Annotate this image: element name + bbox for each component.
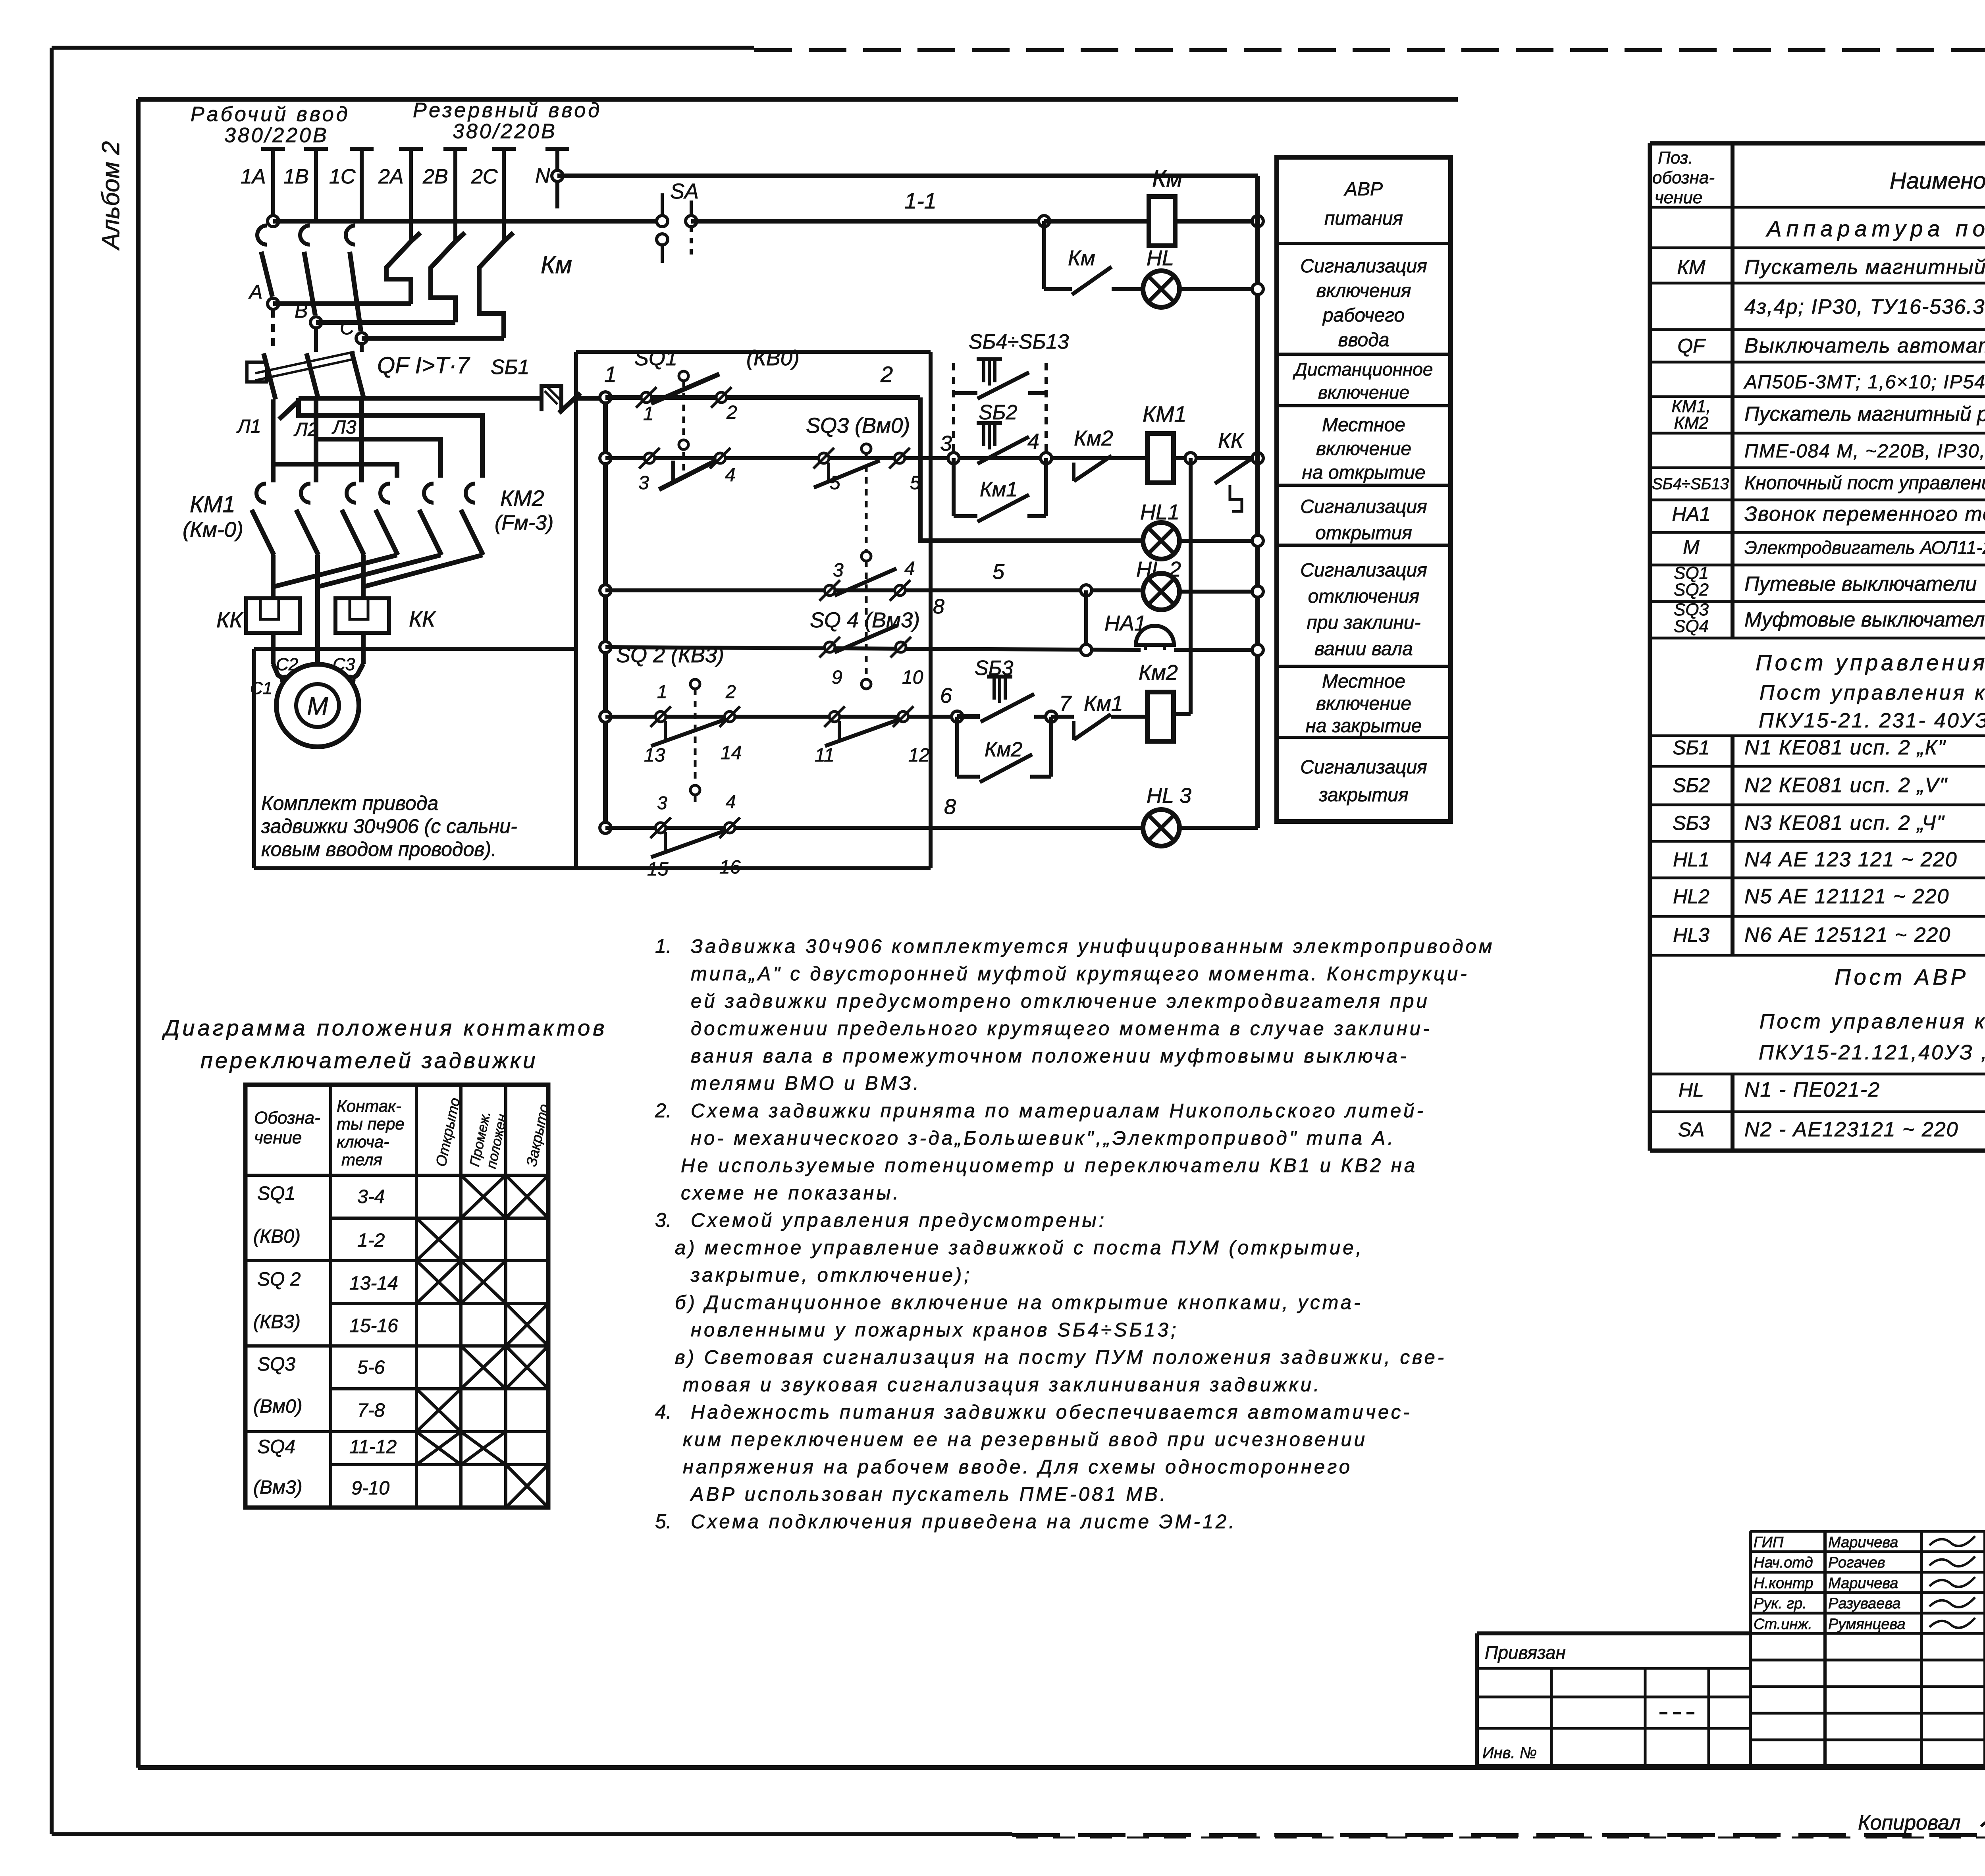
svg-text:Рабочий ввод: Рабочий ввод (191, 103, 350, 126)
svg-text:N2 КЕ081 исп. 2 „V": N2 КЕ081 исп. 2 „V" (1744, 774, 1948, 797)
svg-text:открытия: открытия (1315, 523, 1412, 544)
svg-text:6: 6 (940, 684, 952, 708)
svg-text:4: 4 (725, 465, 736, 486)
svg-text:N4 АЕ 123 121 ~ 220: N4 АЕ 123 121 ~ 220 (1744, 848, 1958, 871)
svg-text:Км1: Км1 (1084, 692, 1123, 715)
svg-text:КМ2: КМ2 (1674, 413, 1708, 433)
pole verticals to QF (271, 310, 275, 352)
svg-text:16: 16 (719, 857, 741, 878)
QF blade (352, 353, 364, 399)
svg-text:QF I>Т·7: QF I>Т·7 (377, 353, 470, 378)
svg-text:Рук. гр.: Рук. гр. (1754, 1595, 1807, 1612)
feeder 2А terminal (399, 147, 423, 151)
X mark row5 (506, 1346, 548, 1389)
contactor KM main contact pole 2 (455, 233, 465, 241)
svg-text:С: С (340, 316, 355, 339)
svg-text:Сигнализация: Сигнализация (1300, 256, 1427, 277)
SQ3-SQ4 linkage dashed (865, 453, 868, 691)
svg-text:Схемой управления предусмотрен: Схемой управления предусмотрены: (691, 1210, 1106, 1231)
svg-text:2: 2 (880, 362, 893, 387)
phase collector lines A B C (273, 301, 411, 306)
svg-text:чение: чение (1655, 188, 1702, 207)
svg-text:SБ4÷SБ13: SБ4÷SБ13 (1652, 475, 1729, 493)
svg-text:Местное: Местное (1322, 671, 1405, 692)
svg-text:8: 8 (933, 595, 944, 618)
SQ2 13-14 blade (651, 719, 727, 746)
svg-text:Альбом 2: Альбом 2 (97, 141, 125, 251)
svg-text:Муфтовые выключатели: Муфтовые выключатели (1744, 608, 1985, 631)
svg-text:ты пере: ты пере (337, 1114, 405, 1133)
control feed wire from QF to SB1 (299, 396, 540, 401)
svg-text:чение: чение (254, 1128, 302, 1147)
svg-text:SQ2: SQ2 (1674, 580, 1709, 600)
svg-text:Км1: Км1 (980, 478, 1018, 501)
svg-text:SA: SA (670, 179, 699, 203)
svg-text:3: 3 (638, 472, 649, 494)
svg-text:Км: Км (1152, 165, 1183, 192)
switch SQ2 contact 15-16 (650, 817, 671, 838)
wire coil KM2 return riser (1189, 458, 1193, 714)
svg-text:HL1: HL1 (1673, 848, 1709, 871)
svg-text:9: 9 (832, 667, 842, 688)
QF output verticals (271, 399, 276, 482)
svg-text:SБ1: SБ1 (491, 356, 529, 379)
SQ4 3-4 blade (834, 569, 896, 596)
svg-text:N: N (535, 164, 550, 187)
svg-text:1: 1 (604, 362, 617, 387)
svg-text:13: 13 (644, 745, 665, 766)
svg-text:НА1: НА1 (1672, 503, 1710, 525)
svg-text:Привязан: Привязан (1485, 1642, 1566, 1663)
svg-text:3-4: 3-4 (357, 1186, 385, 1207)
svg-text:Сигнализация: Сигнализация (1300, 496, 1427, 517)
svg-text:КМ1: КМ1 (1143, 401, 1187, 426)
svg-text:отключения: отключения (1308, 586, 1420, 607)
X mark row8 (506, 1465, 548, 1508)
switch SA (changeover) (661, 193, 664, 216)
svg-text:Разуваева: Разуваева (1828, 1595, 1900, 1612)
svg-text:Задвижка 30ч906 комплектуется: Задвижка 30ч906 комплектуется унифициров… (691, 936, 1494, 957)
feeder 1А terminal (261, 147, 285, 151)
SQ4 9-10 blade (834, 625, 897, 652)
svg-text:Пускатель магнитный реверсивны: Пускатель магнитный реверсивный (1744, 403, 1985, 426)
svg-text:Схема задвижки принята по мате: Схема задвижки принята по материалам Ник… (691, 1100, 1426, 1122)
X mark row1 (461, 1175, 506, 1218)
svg-text:SQ3 (Вм0): SQ3 (Вм0) (806, 414, 910, 438)
svg-text:SБ2: SБ2 (1673, 774, 1710, 796)
KK thermal hook (1230, 485, 1242, 511)
svg-text:Л1: Л1 (236, 416, 261, 437)
svg-text:Пост управления кнопочный: Пост управления кнопочный (1760, 1010, 1985, 1033)
svg-text:б) Дистанционное включение на: б) Дистанционное включение на открытие к… (675, 1292, 1363, 1313)
svg-text:4з,4р; IР30, ТУ16-536.381-8: 4з,4р; IР30, ТУ16-536.381-83 (1744, 295, 1985, 318)
svg-text:а) местное управление задвижко: а) местное управление задвижкой с поста … (675, 1237, 1364, 1259)
svg-text:SА: SА (1678, 1118, 1705, 1141)
SQ3 blade (814, 461, 880, 488)
svg-text:380/220В: 380/220В (453, 120, 557, 143)
svg-text:Местное: Местное (1322, 415, 1405, 436)
wire rung 1 (605, 395, 920, 400)
wire: N bus to control rail (557, 174, 1258, 178)
svg-text:2.: 2. (655, 1099, 672, 1122)
svg-text:2В: 2В (422, 165, 448, 188)
X mark row7 (461, 1432, 506, 1465)
KM1 seal blade (977, 495, 1029, 522)
svg-text:1-1: 1-1 (904, 188, 937, 213)
svg-text:М: М (307, 692, 328, 720)
svg-text:А: А (248, 281, 262, 303)
svg-text:SQ4: SQ4 (257, 1436, 295, 1458)
control feed tap diagonal (279, 401, 299, 419)
svg-text:Поз.: Поз. (1658, 148, 1693, 168)
svg-text:4.: 4. (655, 1401, 672, 1423)
svg-text:(Вм3): (Вм3) (253, 1477, 303, 1498)
svg-text:Инв. №: Инв. № (1482, 1744, 1537, 1762)
switch SQ1 contact 3-4 (639, 448, 660, 469)
crossover wire to KM2 pole1 (273, 464, 397, 478)
svg-text:4: 4 (726, 791, 736, 812)
svg-text:SQ3: SQ3 (257, 1354, 295, 1375)
switch SQ1 contact 1-2 (636, 387, 657, 408)
switch SQ4 contact 3-4 (819, 580, 840, 601)
feeder N terminal (545, 147, 569, 151)
node rung6/left rail (600, 711, 611, 722)
X mark row2 (416, 1218, 461, 1261)
svg-text:HL: HL (1147, 246, 1174, 270)
svg-text:КК: КК (216, 607, 244, 632)
svg-text:(КВ3): (КВ3) (253, 1311, 301, 1332)
svg-text:на открытие: на открытие (1302, 462, 1425, 483)
svg-text:(Км-0): (Км-0) (183, 518, 243, 542)
svg-text:(КВ0): (КВ0) (746, 346, 800, 370)
svg-text:вания вала в промежуточном пол: вания вала в промежуточном положении муф… (691, 1045, 1409, 1067)
svg-text:Сигнализация: Сигнализация (1300, 560, 1427, 581)
svg-text:КК: КК (409, 606, 436, 631)
node branch to KM aux (1039, 216, 1050, 227)
KM2 seal blade (980, 754, 1032, 782)
svg-text:В: В (295, 300, 308, 322)
node rung5/left rail (600, 585, 611, 596)
svg-text:Схема подключения приведена на: Схема подключения приведена на листе ЭМ-… (691, 1511, 1237, 1533)
svg-text:2А: 2А (378, 165, 404, 188)
svg-text:АВР использован пускатель ПМЕ-: АВР использован пускатель ПМЕ-081 МВ. (690, 1484, 1168, 1505)
svg-text:Пускатель магнитный ПМЕ-081МВ,: Пускатель магнитный ПМЕ-081МВ, ~220В (1744, 256, 1985, 279)
svg-text:включение: включение (1316, 438, 1411, 459)
svg-text:3: 3 (657, 792, 667, 813)
svg-text:М: М (1683, 536, 1700, 558)
QF trip bar line1 (255, 352, 355, 373)
svg-text:но- механического з-да„Большев: но- механического з-да„Большевик",„Элект… (691, 1128, 1395, 1149)
svg-text:8: 8 (944, 795, 956, 819)
svg-text:11-12: 11-12 (349, 1436, 397, 1458)
X mark row4 (506, 1303, 548, 1346)
node HA1 rung/left rail (600, 642, 611, 653)
motor outer circle (276, 664, 359, 747)
contact blade pole 1 working input (257, 226, 267, 245)
terminal C3 (346, 676, 354, 684)
svg-text:Км: Км (1068, 246, 1095, 270)
crossover wire to KM2 pole3 (299, 398, 482, 478)
svg-text:15-16: 15-16 (349, 1315, 398, 1336)
svg-text:ким переключением ее на резерв: ким переключением ее на резервный ввод п… (683, 1429, 1367, 1450)
svg-text:задвижки 30ч906 (с сальни-: задвижки 30ч906 (с сальни- (261, 815, 517, 837)
svg-text:ей задвижки предусмотрено откл: ей задвижки предусмотрено отключение эле… (691, 991, 1430, 1012)
contact table frame (245, 1085, 548, 1508)
sheet outer border (52, 46, 754, 50)
X mark row3 (461, 1261, 506, 1303)
svg-text:1С: 1С (329, 165, 356, 188)
svg-text:напряжения на рабочем вводе. Д: напряжения на рабочем вводе. Для схемы о… (683, 1456, 1352, 1478)
feeder 1С terminal (350, 147, 374, 151)
SQ1 3-4 blade (659, 461, 715, 490)
svg-text:ПМЕ-084 М, ~220В, IР30, ТУ16.-: ПМЕ-084 М, ~220В, IР30, ТУ16.-536.381-83 (1744, 441, 1985, 462)
node rung1/left rail (600, 392, 611, 403)
svg-text:(КВ0): (КВ0) (253, 1226, 301, 1247)
node phase 1 (268, 298, 279, 309)
svg-text:N2 - АЕ123121 ~ 220: N2 - АЕ123121 ~ 220 (1744, 1118, 1959, 1141)
привязан box (1477, 1631, 1750, 1635)
svg-text:5: 5 (992, 560, 1005, 584)
svg-text:включение: включение (1316, 693, 1411, 714)
wire 2 down to HL1 rung (920, 397, 1142, 541)
svg-text:Пост АВР: Пост АВР (1835, 964, 1969, 989)
terminal C1 (281, 676, 289, 684)
SQ1 blade (651, 374, 719, 403)
svg-text:закрытие, отключение);: закрытие, отключение); (690, 1265, 972, 1286)
svg-text:SQ 4 (Вм3): SQ 4 (Вм3) (810, 608, 920, 632)
svg-text:Выключатель автоматический: Выключатель автоматический (1744, 334, 1985, 357)
node SB3 branch right (1046, 711, 1057, 722)
svg-text:2: 2 (726, 402, 737, 423)
svg-text:Ст.инж.: Ст.инж. (1754, 1616, 1812, 1633)
right control rail (N) (1255, 176, 1260, 828)
svg-text:ПКУ15-21. 231- 40УЗ, ТУ16: ПКУ15-21. 231- 40УЗ, ТУ16·526.333-74 (1759, 709, 1985, 732)
svg-text:Рогачев: Рогачев (1828, 1554, 1885, 1571)
svg-text:Сигнализация: Сигнализация (1300, 757, 1427, 778)
svg-text:3: 3 (833, 560, 844, 581)
svg-text:HL: HL (1679, 1079, 1704, 1101)
svg-text:1: 1 (657, 681, 667, 702)
svg-text:Нач.отд: Нач.отд (1754, 1554, 1813, 1571)
node bus/1A junction (268, 216, 279, 227)
node SB2 branch right (1041, 453, 1052, 464)
KM1 NC blade (1074, 714, 1111, 740)
node rung8/left rail (600, 822, 611, 833)
svg-text:5: 5 (910, 472, 921, 494)
svg-text:товая и звуковая сигнализация: товая и звуковая сигнализация заклиниван… (683, 1374, 1322, 1396)
SQ3 plunger circle (861, 444, 871, 453)
svg-text:4: 4 (1027, 430, 1039, 453)
feeder 2С terminal (492, 147, 516, 151)
svg-text:SQ1: SQ1 (634, 346, 677, 370)
contactor KM2 main contacts (380, 484, 390, 503)
svg-text:КК: КК (1218, 429, 1245, 453)
KM aux contact + lamp HL branch (1042, 221, 1046, 289)
svg-text:QF: QF (1677, 335, 1706, 357)
svg-text:5: 5 (830, 472, 840, 494)
KM aux blade (1072, 267, 1112, 295)
svg-text:SQ4: SQ4 (1674, 617, 1709, 636)
svg-text:Км2: Км2 (1074, 426, 1113, 450)
svg-text:1.: 1. (655, 935, 672, 957)
svg-text:Маричева: Маричева (1828, 1534, 1898, 1551)
svg-text:2С: 2С (471, 165, 498, 188)
node coil/KK junction (1185, 453, 1196, 464)
svg-text:11: 11 (815, 745, 834, 766)
svg-text:7: 7 (1059, 692, 1072, 715)
node SB3 branch left (952, 711, 963, 722)
svg-text:ГИП: ГИП (1754, 1534, 1784, 1551)
svg-text:2: 2 (725, 681, 736, 702)
svg-text:обозна-: обозна- (1652, 168, 1715, 187)
QF blade (306, 353, 318, 399)
X mark row1 (506, 1175, 548, 1218)
SQ4 11-12 blade (825, 719, 900, 746)
wire rung 8 (605, 826, 1142, 830)
svg-text:12: 12 (908, 745, 929, 766)
X mark row7 (416, 1432, 461, 1465)
svg-text:Маричева: Маричева (1828, 1575, 1898, 1592)
SB2 blade (977, 437, 1029, 464)
svg-text:АП50Б-3МТ; 1,6×10; IР54; ТУ16.: АП50Б-3МТ; 1,6×10; IР54; ТУ16.522.139-78 (1743, 372, 1985, 393)
svg-text:Дистанционное: Дистанционное (1293, 359, 1433, 380)
svg-text:10: 10 (902, 667, 923, 688)
SB4 blade (977, 372, 1029, 399)
svg-text:схеме не показаны.: схеме не показаны. (681, 1182, 901, 1204)
svg-text:HL2: HL2 (1673, 885, 1709, 908)
svg-text:Румянцева: Румянцева (1828, 1616, 1906, 1633)
SQ2 linkage dashed (694, 689, 697, 802)
svg-text:включения: включения (1316, 280, 1411, 301)
svg-text:15: 15 (647, 859, 669, 880)
svg-text:Км2: Км2 (1139, 661, 1178, 684)
contactor KM main contact pole 3 (504, 233, 513, 241)
switch SQ4 contact 11-12 (824, 706, 845, 727)
wire rung open-direction (605, 456, 1147, 460)
svg-text:Наименование: Наименование (1890, 168, 1985, 194)
svg-text:Не используемые потенциометр и: Не используемые потенциометр и переключа… (681, 1155, 1417, 1176)
control box outline (576, 350, 931, 354)
svg-text:вании вала: вании вала (1314, 638, 1413, 659)
svg-text:Электродвигатель АОЛ11-2ФЗ;~38: Электродвигатель АОЛ11-2ФЗ;~380В, 018 кВ… (1744, 537, 1985, 558)
wire stub SB3 left (957, 714, 980, 719)
svg-text:типа„А" с двусторонней муфтой: типа„А" с двусторонней муфтой крутящего … (691, 963, 1469, 985)
svg-text:в) Световая сигнализация на по: в) Световая сигнализация на посту ПУМ по… (675, 1347, 1446, 1368)
svg-text:Копировал: Копировал (1858, 1811, 1961, 1834)
svg-text:АВР: АВР (1343, 179, 1383, 200)
svg-text:9-10: 9-10 (351, 1478, 389, 1499)
svg-text:Надежность питания задвижки об: Надежность питания задвижки обеспечивает… (691, 1402, 1412, 1423)
svg-text:Резервный ввод: Резервный ввод (413, 99, 602, 122)
QF blade (264, 353, 276, 399)
svg-text:4: 4 (904, 558, 915, 579)
node phase 3 (356, 333, 367, 344)
svg-text:при заклини-: при заклини- (1307, 612, 1420, 633)
svg-text:HL 3: HL 3 (1147, 784, 1191, 808)
drive kit box (254, 647, 576, 651)
svg-text:Контак-: Контак- (337, 1097, 401, 1115)
svg-text:1: 1 (643, 403, 654, 424)
svg-text:SQ 2: SQ 2 (257, 1269, 301, 1290)
seal-in contact KM2 parallel branch (955, 717, 959, 777)
svg-text:Н.контр: Н.контр (1754, 1575, 1813, 1592)
wire 1-1 segment (691, 219, 1044, 224)
thermal element KK right (335, 598, 389, 633)
svg-text:Км2: Км2 (985, 738, 1022, 761)
motor feed bends (273, 664, 285, 680)
svg-text:новленными у пожарных кранов S: новленными у пожарных кранов SБ4÷SБ13; (691, 1319, 1179, 1341)
svg-text:ключа-: ключа- (337, 1132, 389, 1151)
svg-text:ковым вводом проводов).: ковым вводом проводов). (261, 838, 497, 860)
svg-text:КМ: КМ (1677, 256, 1705, 278)
svg-text:380/220В: 380/220В (224, 124, 329, 147)
svg-text:1А: 1А (241, 165, 266, 188)
svg-text:КМ1: КМ1 (190, 492, 235, 517)
function column box (1277, 157, 1451, 821)
svg-text:питания: питания (1324, 208, 1403, 229)
svg-text:SБ4÷SБ13: SБ4÷SБ13 (969, 330, 1069, 353)
svg-text:14: 14 (721, 742, 742, 764)
X mark row6 (416, 1389, 461, 1432)
contactor coil KM (1149, 197, 1175, 246)
svg-text:включение: включение (1318, 382, 1409, 403)
seal-in contact KM1 parallel branch (952, 458, 956, 516)
bill of materials table (1650, 141, 1985, 146)
svg-text:Обозна-: Обозна- (254, 1108, 320, 1128)
wire rung HA1 (605, 647, 1141, 650)
crossover wire to KM2 pole2 (316, 439, 441, 478)
thermal element KK left (246, 598, 300, 633)
svg-text:SБ3: SБ3 (1673, 812, 1710, 834)
svg-text:1В: 1В (283, 165, 309, 188)
contactor KM1 main contacts (256, 484, 266, 503)
svg-text:Км: Км (541, 251, 572, 279)
svg-text:SQ 2 (КВ3): SQ 2 (КВ3) (616, 643, 724, 667)
svg-text:достижении предельного крутяще: достижении предельного крутящего момента… (691, 1018, 1432, 1039)
contact blade pole 2 working input (300, 226, 310, 245)
svg-text:N1 КЕ081 исп. 2 „К": N1 КЕ081 исп. 2 „К" (1744, 736, 1946, 759)
svg-text:телями ВМО и ВМЗ.: телями ВМО и ВМЗ. (691, 1073, 921, 1094)
svg-text:N3 КЕ081 исп. 2 „Ч": N3 КЕ081 исп. 2 „Ч" (1744, 812, 1945, 835)
svg-text:5.: 5. (655, 1510, 672, 1533)
svg-text:ПКУ15-21.121,40УЗ , ТУ16.52: ПКУ15-21.121,40УЗ , ТУ16.526.333-83 (1759, 1041, 1985, 1064)
svg-text:Пост управления кнопочный: Пост управления кнопочный (1760, 681, 1985, 704)
svg-text:SБ2: SБ2 (979, 401, 1018, 424)
node N junction (552, 170, 563, 181)
X mark row5 (461, 1346, 506, 1389)
QF handle square (247, 362, 267, 382)
svg-text:Пост управления ПУМ: Пост управления ПУМ (1756, 650, 1985, 675)
svg-text:(Fм-3): (Fм-3) (495, 511, 553, 534)
svg-text:Путевые выключатели: Путевые выключатели (1744, 573, 1977, 596)
svg-text:Диаграмма положения контактов: Диаграмма положения контактов (162, 1015, 607, 1040)
svg-text:Аппаратура по месту: Аппаратура по месту (1765, 216, 1985, 241)
KK blade (1215, 457, 1255, 484)
svg-text:переключателей задвижки: переключателей задвижки (200, 1048, 538, 1073)
SQ2 15-16 blade (651, 830, 727, 857)
svg-text:КМ2: КМ2 (500, 486, 544, 511)
link rung5 to HA1 rung (1084, 590, 1088, 650)
svg-text:SБ1: SБ1 (1673, 737, 1710, 759)
contactor coil KM1 (1147, 434, 1174, 483)
svg-text:N6 АЕ 125121 ~ 220: N6 АЕ 125121 ~ 220 (1744, 924, 1951, 947)
svg-text:N1 - ПЕ021-2: N1 - ПЕ021-2 (1744, 1078, 1880, 1101)
motor inner circle (296, 684, 339, 727)
svg-text:13-14: 13-14 (349, 1273, 398, 1294)
KM2 NC blade (1074, 456, 1112, 481)
X mark row3 (416, 1261, 461, 1303)
svg-text:(Вм0): (Вм0) (253, 1396, 303, 1417)
